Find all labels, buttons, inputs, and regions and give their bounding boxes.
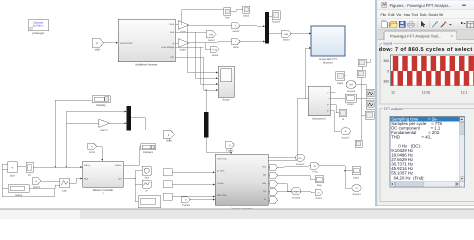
svg-text:12.1: 12.1 — [461, 91, 468, 95]
svg-text:Goto3: Goto3 — [212, 54, 219, 57]
svg-text:Vr: Vr — [96, 42, 99, 45]
block F3 right of M3 — [272, 11, 281, 24]
svg-text:64.29 Hz (Fnd):: 64.29 Hz (Fnd): — [391, 175, 424, 180]
mux bar M1 — [127, 106, 132, 131]
terminator circle RC2 — [346, 81, 356, 93]
wire junction dots — [55, 89, 346, 179]
wire vertical drop v1 to scope — [188, 25, 218, 73]
powergui block — [28, 20, 49, 35]
svg-text:Ramp: Ramp — [15, 194, 22, 197]
window title icon — [382, 2, 387, 7]
svg-text:Vie: Vie — [396, 13, 401, 17]
wire inverter out4 row — [175, 46, 203, 48]
wire tag C to mux M3 — [240, 25, 265, 28]
wire branch to tag E top — [205, 43, 211, 49]
svg-text:Scope7: Scope7 — [342, 137, 351, 140]
svg-text:Scope6: Scope6 — [347, 90, 356, 93]
svg-text:Goto: Goto — [166, 140, 172, 143]
goto tag column R1 — [270, 164, 278, 171]
svg-text:GotoV: GotoV — [233, 30, 240, 33]
goto tag column R5 — [270, 197, 278, 204]
svg-text:FFT analysis: FFT analysis — [384, 107, 403, 111]
menu bar — [378, 10, 474, 19]
block B PI — [26, 162, 33, 177]
wire arrowheads — [80, 25, 311, 200]
svg-text:Vt: Vt — [355, 187, 358, 190]
wire W2 to converter area — [2, 189, 54, 197]
toolbar icon cursor — [421, 21, 425, 27]
wire up into blue scope port2 — [306, 48, 311, 99]
terminator circle V1 — [296, 154, 305, 166]
edge block EC2 — [366, 100, 376, 109]
goto tag column R2 — [270, 172, 278, 179]
svg-text:File: File — [381, 13, 387, 17]
display block D1 — [92, 96, 110, 108]
svg-text:12.05: 12.05 — [422, 91, 431, 95]
svg-text:g+ Puls: g+ Puls — [217, 170, 225, 173]
wire C to E — [29, 185, 60, 189]
terminator circle V3 — [352, 185, 361, 197]
svg-text:THD: THD — [225, 16, 230, 19]
gain G1 — [178, 21, 189, 34]
wire G3 out to M1 — [110, 122, 127, 124]
goto tag E top — [211, 46, 220, 57]
goto tag T4 — [182, 196, 191, 207]
terminator circle V2 — [291, 187, 300, 199]
svg-text:0: 0 — [387, 69, 389, 73]
svg-text:Scope3: Scope3 — [292, 196, 301, 199]
toolbar icon tool — [432, 21, 438, 27]
svg-text:Fr: Fr — [314, 165, 316, 168]
wire tag T2 down — [168, 138, 170, 141]
wire edge top cluster — [359, 59, 371, 140]
mux bar M3 — [265, 12, 269, 44]
wire M2 down to converter top — [206, 137, 231, 154]
svg-text:Figures - Powergui FFT Analysi: Figures - Powergui FFT Analysi... — [390, 3, 452, 8]
goto tag Vab top — [206, 31, 216, 43]
svg-text:Ctrl: Ctrl — [118, 177, 122, 180]
wire gain G2 out row — [189, 42, 232, 44]
svg-text:m: m — [185, 199, 187, 202]
svg-text:Scope4: Scope4 — [352, 193, 361, 196]
wire vertical drop v2 to scope — [195, 32, 218, 78]
svg-text:Sum: Sum — [10, 175, 15, 178]
edge block EC6 — [355, 140, 362, 147]
svg-text:Disp2: Disp2 — [243, 15, 250, 18]
svg-text:Goto4: Goto4 — [283, 39, 290, 42]
scope blue block — [311, 26, 345, 65]
top block small F1 — [224, 8, 231, 20]
wire T1 into controller top — [97, 146, 103, 161]
svg-text:Inse: Inse — [404, 13, 411, 17]
svg-text:Disp: Disp — [317, 184, 322, 187]
edge block EC4 — [358, 59, 366, 66]
wire branch to G3 — [66, 111, 79, 167]
block RC4 — [339, 109, 346, 121]
wire A to B — [17, 166, 26, 168]
terminator circle RC5 — [341, 128, 350, 140]
top block small F2 — [243, 6, 250, 18]
svg-text:+: + — [11, 166, 13, 170]
figure window frame — [375, 0, 474, 206]
svg-text:300: 300 — [383, 59, 389, 63]
svg-text:V ab: V ab — [212, 48, 217, 51]
wire T3 down feed — [229, 148, 231, 152]
svg-text:Tm: Tm — [263, 190, 266, 193]
edge block EC3 — [365, 111, 374, 119]
signal generator C — [8, 185, 29, 197]
svg-text:Measure: Measure — [323, 62, 333, 65]
display D4 — [352, 167, 361, 180]
svg-text:Scope5: Scope5 — [272, 21, 281, 24]
wire cluster edge — [345, 76, 366, 115]
listbox v scrollbar — [460, 117, 465, 187]
wire to freq tag — [278, 166, 311, 167]
subsystem Multilevel Inverter — [118, 19, 175, 67]
goto tag column R3 — [270, 180, 278, 187]
wire converter outs to tag column — [268, 167, 270, 200]
svg-text:Vab: Vab — [209, 33, 214, 36]
svg-text:powergui: powergui — [33, 31, 45, 35]
wire vertical drop v4 to scope and mux M2 — [203, 57, 218, 112]
svg-text:Edit: Edit — [388, 13, 394, 17]
display block D2 — [141, 144, 156, 154]
edge block EC1 — [366, 89, 376, 99]
FFT groupbox — [380, 106, 474, 202]
svg-text:300: 300 — [383, 79, 389, 83]
wire oval tag to blue scope — [291, 33, 311, 35]
wire to V2 — [278, 184, 292, 191]
svg-text:m: m — [264, 198, 266, 201]
wire to V3 — [345, 171, 352, 188]
svg-text:Disp1: Disp1 — [353, 177, 360, 180]
svg-text:Powergui FFT Analysis Tool...: Powergui FFT Analysis Tool... — [390, 33, 441, 38]
goto tag T1 — [88, 143, 97, 154]
svg-text:Multilevel Inverter: Multilevel Inverter — [136, 63, 158, 67]
svg-text:Vab w: Vab w — [84, 164, 90, 167]
display block W2 — [138, 196, 161, 213]
svg-text:Out: Out — [145, 177, 149, 180]
tag left column TL3 — [163, 193, 172, 200]
wire controller out1 to D2 — [123, 147, 141, 165]
scope S1 small — [142, 166, 151, 180]
wire tag D to E — [41, 180, 60, 182]
toolbar icon save — [399, 21, 405, 27]
oval tag signal — [282, 30, 292, 42]
svg-text:Vab*: Vab* — [95, 48, 102, 52]
svg-text:Deskt: Deskt — [429, 13, 438, 17]
goto tag T3 — [226, 141, 234, 152]
goto tag Freq — [311, 163, 320, 174]
svg-text:Goto2: Goto2 — [208, 39, 215, 42]
wire subsystem outs — [330, 93, 345, 132]
svg-text:Disp4: Disp4 — [347, 103, 354, 106]
svg-text:Disp3: Disp3 — [337, 82, 344, 85]
display D3 — [315, 176, 324, 188]
svg-text:Calc: Calc — [62, 190, 68, 193]
wire inverter out3 to gain G2 — [175, 42, 178, 44]
toolbar icon brush — [441, 21, 447, 27]
tag left column TL2 — [163, 181, 172, 188]
svg-text:Display1: Display1 — [143, 151, 154, 154]
mux bar M2 — [204, 112, 209, 138]
right cluster block RC1 — [336, 72, 345, 85]
wire M3 to oval tag — [269, 33, 282, 35]
scope S2 small — [142, 180, 151, 192]
wire top feed F1 — [182, 10, 224, 25]
svg-text:A Com: A Com — [217, 182, 224, 185]
wire controller out2 to S1 S2 — [123, 171, 142, 202]
svg-text:Goto1: Goto1 — [316, 197, 323, 200]
svg-text:Deb.: Deb. — [420, 13, 428, 17]
status bar — [0, 209, 474, 219]
window title bar — [378, 1, 474, 10]
svg-text:Signal: Signal — [383, 41, 392, 45]
toolbar right icons — [461, 21, 474, 28]
toolbar separator 2 — [428, 21, 430, 29]
goto tag D — [32, 178, 41, 189]
svg-text:Iout: Iout — [170, 31, 174, 34]
wire display D1 feed — [55, 99, 92, 101]
wire into mux M1 top — [79, 110, 127, 112]
svg-text:Scope: Scope — [222, 99, 230, 102]
FFT listbox — [390, 117, 465, 188]
goto tag m — [315, 189, 323, 200]
gain G2 — [178, 39, 189, 52]
subsystem three-phase converter — [215, 154, 268, 211]
wire Vref to inverter — [104, 42, 119, 44]
wire left tags to converter — [172, 172, 215, 199]
svg-text:Subsystem1: Subsystem1 — [312, 117, 326, 120]
wire long to D4 — [320, 166, 353, 171]
wire F1 to F2 — [231, 10, 243, 12]
svg-text:THD = 43..: THD = 43.. — [391, 135, 432, 140]
wire branch B up — [54, 100, 56, 167]
svg-text:2e-006 s.: 2e-006 s. — [33, 25, 44, 28]
svg-text:Wi: Wi — [439, 13, 443, 17]
wire to display D3 — [278, 176, 315, 180]
wire sum A inputs — [2, 164, 8, 188]
edge block EC5 — [357, 70, 365, 77]
svg-text:Vab: Vab — [284, 33, 289, 36]
wire M1 out — [131, 118, 146, 130]
svg-text:G: G — [342, 118, 344, 121]
tab bar — [378, 30, 474, 40]
svg-text:ABC Puls: ABC Puls — [217, 194, 227, 197]
wire vertical drop v3 to scope — [201, 47, 219, 84]
svg-text:12: 12 — [391, 91, 395, 95]
subsystem Master Controller — [83, 161, 124, 195]
svg-text:Line Voltage: Line Voltage — [161, 46, 174, 49]
svg-text:Display: Display — [96, 103, 106, 107]
signal plot red bars bottom — [391, 71, 474, 86]
goto tag column R4 — [270, 189, 278, 196]
wire M3 to F3 — [269, 15, 272, 17]
svg-text:From3: From3 — [182, 204, 190, 207]
listbox h scrollbar — [390, 182, 460, 187]
goto tag T2 — [163, 131, 174, 143]
svg-text:DC: DC — [171, 56, 175, 59]
goto tag C top — [232, 23, 241, 34]
constant Vref tag — [92, 39, 104, 52]
toolbar icon new — [382, 21, 388, 28]
toolbar separator — [416, 21, 418, 29]
svg-text:From: From — [89, 151, 95, 154]
svg-text:m: m — [146, 189, 148, 192]
wire tag D to mux M3 — [240, 41, 265, 43]
wire inverter out2 row — [175, 31, 206, 33]
wire inverter out5 row — [175, 56, 203, 58]
svg-text:PI: PI — [28, 174, 31, 177]
subsystem measurements — [308, 86, 330, 120]
wire B out to master controller — [33, 165, 83, 167]
svg-text:Vout: Vout — [169, 23, 174, 26]
wire inverter out1 to gain G1 — [175, 24, 178, 26]
signal groupbox — [380, 41, 474, 104]
minimize glyph — [462, 5, 466, 6]
tag left column TL1 — [163, 169, 172, 176]
goto tag D top — [232, 38, 241, 49]
wire gain G3 feed — [66, 122, 98, 124]
toolbar icon open folder — [390, 21, 398, 27]
wire to tag m — [278, 191, 315, 194]
display RC3 — [345, 94, 356, 106]
signal plot red bars top — [391, 56, 474, 71]
wire long vertical to subsystem — [268, 99, 308, 161]
x tick labels — [391, 91, 467, 95]
svg-text:Gain: Gain — [180, 31, 186, 34]
svg-text:Pulses: Pulses — [115, 164, 122, 167]
svg-text:w: w — [91, 145, 93, 148]
toolbar caret — [449, 24, 452, 26]
wire E to master controller — [69, 179, 83, 184]
wire gain G1 out row — [189, 24, 232, 27]
scope block main — [218, 66, 234, 102]
svg-text:Freq: Freq — [313, 170, 319, 173]
svg-text:Tool: Tool — [412, 13, 419, 17]
svg-text:Uref 3 Cntrl: Uref 3 Cntrl — [120, 42, 133, 45]
signal plot axes — [391, 55, 474, 86]
svg-text:Gain1: Gain1 — [180, 49, 187, 52]
wire converter to V1 — [268, 157, 296, 159]
svg-text:m: m — [318, 192, 320, 195]
svg-text:Gain 2: Gain 2 — [100, 129, 108, 132]
svg-text:Scope2: Scope2 — [296, 163, 305, 166]
sum block A — [8, 162, 17, 178]
svg-text:Com Tmp: Com Tmp — [217, 158, 227, 161]
block E — [60, 178, 69, 192]
svg-text:GotoI: GotoI — [233, 46, 239, 49]
toolbar — [378, 19, 474, 30]
gain G3 — [99, 119, 110, 132]
toolbar icon print — [408, 21, 415, 27]
svg-text:dow: 7 of 860.5 cycles of sele: dow: 7 of 860.5 cycles of select — [379, 47, 473, 53]
